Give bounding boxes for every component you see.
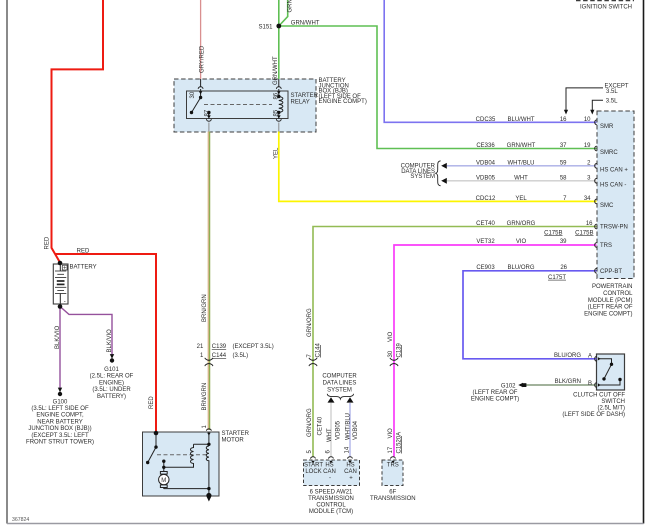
- svg-text:CE336: CE336: [476, 143, 495, 149]
- svg-text:GRN/WHT: GRN/WHT: [507, 143, 536, 149]
- svg-text:TRS: TRS: [600, 243, 612, 249]
- svg-text:+: +: [63, 265, 67, 271]
- svg-text:B: B: [588, 381, 592, 387]
- svg-text:CET40: CET40: [317, 416, 323, 435]
- svg-text:34: 34: [584, 196, 591, 202]
- svg-text:85: 85: [273, 109, 279, 116]
- svg-text:WHT/BLU: WHT/BLU: [508, 160, 535, 166]
- svg-text:BATTERY): BATTERY): [97, 394, 126, 400]
- svg-text:HS CAN -: HS CAN -: [600, 182, 626, 188]
- svg-text:RED: RED: [44, 236, 50, 249]
- svg-text:BLK/VIO: BLK/VIO: [55, 325, 61, 349]
- svg-text:ENGINE COMPT): ENGINE COMPT): [471, 396, 519, 402]
- svg-text:YEL: YEL: [515, 196, 527, 202]
- svg-text:SMRC: SMRC: [600, 150, 618, 156]
- svg-text:(LEFT SIDE OF DASH): (LEFT SIDE OF DASH): [562, 412, 625, 418]
- svg-text:A: A: [588, 353, 592, 359]
- svg-text:FRONT STRUT TOWER): FRONT STRUT TOWER): [26, 440, 94, 446]
- svg-text:(3.5L: LEFT SIDE OF: (3.5L: LEFT SIDE OF: [31, 406, 89, 412]
- svg-text:STARTER: STARTER: [291, 93, 319, 99]
- svg-text:16: 16: [586, 221, 593, 227]
- svg-text:VET32: VET32: [476, 239, 495, 245]
- svg-text:POWERTRAIN: POWERTRAIN: [592, 284, 633, 290]
- svg-text:S151: S151: [258, 24, 273, 30]
- svg-text:VDB04: VDB04: [476, 160, 496, 166]
- svg-text:(LEFT REAR OF: (LEFT REAR OF: [588, 305, 633, 311]
- svg-text:(LEFT REAR OF: (LEFT REAR OF: [473, 390, 518, 396]
- svg-text:ENGINE COMPT,: ENGINE COMPT,: [36, 413, 84, 419]
- svg-text:58: 58: [560, 175, 567, 181]
- svg-text:WHT/BLU: WHT/BLU: [345, 413, 351, 440]
- svg-text:SYSTEM: SYSTEM: [410, 174, 435, 180]
- svg-text:HS: HS: [346, 463, 354, 469]
- svg-text:(3.5L): (3.5L): [233, 353, 249, 359]
- svg-text:86: 86: [273, 92, 279, 99]
- svg-text:59: 59: [560, 160, 567, 166]
- svg-text:BLK/VIO: BLK/VIO: [107, 329, 113, 353]
- svg-text:SYSTEM: SYSTEM: [327, 387, 352, 393]
- svg-text:MODULE (PCM): MODULE (PCM): [588, 298, 633, 304]
- svg-text:JUNCTION BOX (BJB)): JUNCTION BOX (BJB)): [28, 426, 91, 432]
- svg-text:START: START: [304, 463, 323, 469]
- svg-text:M: M: [161, 478, 166, 484]
- svg-text:BATTERY: BATTERY: [70, 265, 97, 271]
- svg-text:WHT: WHT: [327, 428, 333, 442]
- svg-text:YEL: YEL: [274, 147, 280, 159]
- svg-text:VIO: VIO: [388, 428, 394, 439]
- svg-text:-: -: [329, 476, 331, 482]
- svg-text:C175T: C175T: [548, 275, 566, 281]
- svg-text:GRN/ORG: GRN/ORG: [307, 408, 313, 437]
- svg-text:CONTROL: CONTROL: [603, 291, 633, 297]
- svg-text:17: 17: [388, 446, 394, 453]
- svg-text:3.5L: 3.5L: [606, 89, 618, 95]
- svg-text:37: 37: [560, 143, 567, 149]
- svg-text:14: 14: [344, 446, 350, 453]
- svg-text:C175B: C175B: [544, 230, 562, 236]
- svg-text:IGNITION SWITCH: IGNITION SWITCH: [580, 5, 632, 11]
- svg-text:GRN/WHT: GRN/WHT: [273, 56, 279, 85]
- svg-text:CDC35: CDC35: [476, 117, 496, 123]
- svg-text:+: +: [349, 476, 353, 482]
- svg-text:21: 21: [197, 344, 204, 350]
- svg-text:GRY/RED: GRY/RED: [200, 45, 206, 73]
- svg-text:GRN: GRN: [288, 0, 294, 13]
- svg-text:G101: G101: [104, 367, 119, 373]
- svg-text:(EXCEPT 3.5L: LEFT: (EXCEPT 3.5L: LEFT: [31, 433, 89, 439]
- svg-text:G100: G100: [53, 399, 68, 405]
- svg-text:HS CAN +: HS CAN +: [600, 167, 628, 173]
- svg-text:C139: C139: [212, 344, 227, 350]
- svg-text:TRANSMISSION: TRANSMISSION: [308, 496, 354, 502]
- svg-text:VDB05: VDB05: [335, 420, 341, 440]
- svg-text:GRN/ORG: GRN/ORG: [507, 221, 536, 227]
- svg-text:SWITCH: SWITCH: [601, 399, 625, 405]
- svg-text:COMPUTER: COMPUTER: [322, 373, 357, 379]
- svg-text:6 SPEED AW21: 6 SPEED AW21: [310, 489, 353, 495]
- svg-text:BLK/GRN: BLK/GRN: [555, 379, 581, 385]
- svg-text:CPP-BT: CPP-BT: [600, 269, 622, 275]
- svg-text:39: 39: [560, 239, 567, 245]
- svg-text:BRN/GRN: BRN/GRN: [202, 383, 208, 411]
- svg-text:ENGINE COMPT): ENGINE COMPT): [584, 311, 632, 317]
- svg-text:CAN: CAN: [344, 469, 357, 475]
- svg-text:VDB05: VDB05: [476, 175, 496, 181]
- svg-text:C175B: C175B: [575, 230, 593, 236]
- svg-text:GRN/ORG: GRN/ORG: [307, 308, 313, 337]
- svg-text:MOTOR: MOTOR: [222, 438, 245, 444]
- svg-text:RED: RED: [149, 396, 155, 409]
- svg-text:TRANSMISSION: TRANSMISSION: [370, 496, 416, 502]
- svg-text:C144: C144: [212, 353, 227, 359]
- svg-text:CONTROL: CONTROL: [316, 502, 346, 508]
- svg-text:BRN/GRN: BRN/GRN: [202, 294, 208, 322]
- svg-text:87: 87: [204, 109, 210, 116]
- svg-text:CE903: CE903: [476, 265, 495, 271]
- svg-text:6F: 6F: [389, 489, 396, 495]
- svg-text:LOCK: LOCK: [305, 469, 321, 475]
- svg-text:16: 16: [560, 117, 567, 123]
- svg-text:VIO: VIO: [516, 239, 527, 245]
- svg-text:(2.5L: REAR OF: (2.5L: REAR OF: [90, 374, 134, 380]
- svg-text:G102: G102: [501, 383, 516, 389]
- svg-text:(EXCEPT 3.5L): (EXCEPT 3.5L): [233, 344, 274, 350]
- svg-text:TRSW-PN: TRSW-PN: [600, 225, 628, 231]
- svg-text:(3.5L: UNDER: (3.5L: UNDER: [92, 387, 131, 393]
- svg-text:26: 26: [560, 265, 567, 271]
- svg-text:NEAR BATTERY: NEAR BATTERY: [37, 419, 82, 425]
- svg-text:SMR: SMR: [600, 124, 614, 130]
- svg-text:ENGINE): ENGINE): [99, 380, 124, 386]
- svg-text:DATA LINES: DATA LINES: [323, 381, 357, 387]
- svg-text:30: 30: [190, 91, 196, 98]
- svg-text:VIO: VIO: [388, 331, 394, 342]
- svg-text:19: 19: [584, 143, 591, 149]
- svg-text:367824: 367824: [12, 517, 29, 523]
- svg-text:BLU/WHT: BLU/WHT: [508, 117, 535, 123]
- svg-text:(2.5L M/T): (2.5L M/T): [598, 406, 625, 412]
- svg-text:TRS: TRS: [387, 463, 399, 469]
- svg-text:CLUTCH CUT OFF: CLUTCH CUT OFF: [573, 393, 625, 399]
- svg-text:WHT: WHT: [514, 175, 528, 181]
- svg-text:30: 30: [388, 350, 394, 357]
- svg-text:RELAY: RELAY: [291, 100, 310, 106]
- svg-text:MODULE (TCM): MODULE (TCM): [309, 509, 353, 515]
- svg-text:RED: RED: [77, 249, 90, 255]
- svg-text:GRN/WHT: GRN/WHT: [291, 20, 320, 26]
- svg-text:10: 10: [584, 117, 591, 123]
- svg-text:STARTER: STARTER: [222, 431, 250, 437]
- svg-text:SMC: SMC: [600, 203, 614, 209]
- svg-text:CAN: CAN: [323, 469, 336, 475]
- svg-text:-: -: [64, 299, 66, 305]
- svg-text:BLU/ORG: BLU/ORG: [507, 265, 534, 271]
- svg-text:HS: HS: [325, 463, 333, 469]
- svg-text:ENGINE COMPT): ENGINE COMPT): [319, 99, 367, 105]
- svg-text:BLU/ORG: BLU/ORG: [554, 353, 581, 359]
- svg-text:CET40: CET40: [476, 221, 495, 227]
- svg-text:VDB04: VDB04: [353, 420, 359, 440]
- svg-text:3.5L: 3.5L: [606, 98, 618, 104]
- svg-text:CDC12: CDC12: [476, 196, 496, 202]
